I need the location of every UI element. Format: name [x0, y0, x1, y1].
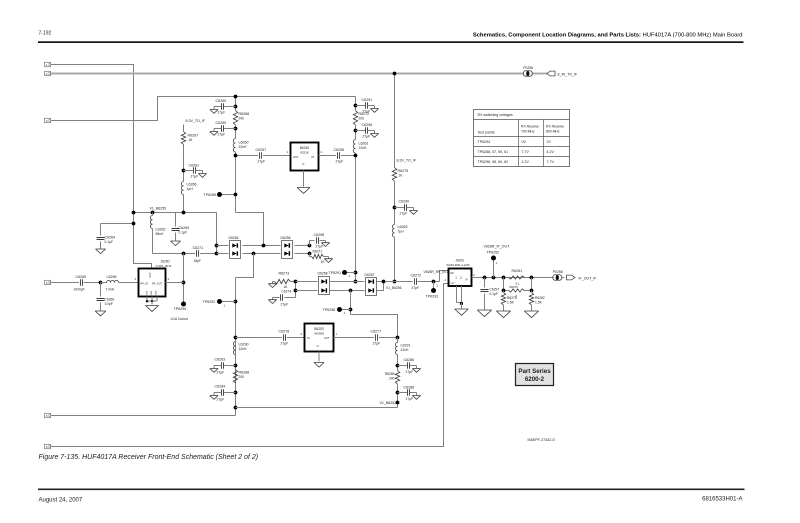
svg-text:GND: GND: [156, 290, 158, 295]
svg-text:RF_OUT: RF_OUT: [152, 282, 163, 286]
svg-text:C6290: C6290: [399, 200, 410, 204]
svg-text:27µF: 27µF: [218, 133, 226, 137]
svg-text:8.3V_TO_IF: 8.3V_TO_IF: [397, 159, 417, 163]
svg-text:C6272: C6272: [411, 274, 422, 278]
svg-text:TP6292: TP6292: [203, 300, 216, 304]
svg-text:P0256: P0256: [523, 66, 533, 70]
svg-text:C6266: C6266: [105, 298, 115, 302]
svg-text:L6262: L6262: [156, 228, 166, 232]
svg-text:27µF: 27µF: [336, 160, 344, 164]
svg-text:D6256: D6256: [281, 236, 291, 240]
svg-text:V1_B6255: V1_B6255: [150, 207, 167, 211]
svg-text:D6258: D6258: [318, 272, 328, 276]
svg-text:C6277: C6277: [371, 330, 382, 334]
svg-text:U1A Cutout: U1A Cutout: [171, 317, 188, 321]
svg-text:200: 200: [389, 377, 395, 381]
svg-text:V1_B6256: V1_B6256: [386, 286, 402, 290]
svg-text:R6267: R6267: [188, 134, 199, 138]
svg-text:C6257: C6257: [256, 148, 267, 152]
svg-text:C6265: C6265: [76, 275, 87, 279]
svg-text:200: 200: [239, 375, 245, 379]
svg-text:27µF: 27µF: [191, 175, 199, 179]
svg-text:Q: Q: [302, 163, 305, 165]
svg-text:1000pF: 1000pF: [74, 288, 85, 292]
svg-text:C6286: C6286: [404, 358, 415, 362]
svg-text:18pF: 18pF: [194, 259, 202, 263]
svg-text:TP6293: TP6293: [426, 295, 439, 299]
svg-text:L6291: L6291: [401, 344, 411, 348]
svg-text:C6283: C6283: [215, 358, 226, 362]
svg-text:L6290: L6290: [239, 343, 249, 347]
svg-text:C6278: C6278: [279, 330, 290, 334]
svg-text:22nH: 22nH: [239, 347, 248, 351]
svg-text:C6274: C6274: [282, 290, 292, 294]
svg-text:GND: GND: [151, 290, 153, 295]
svg-text:R6278: R6278: [507, 296, 517, 300]
svg-text:D6254: D6254: [229, 236, 239, 240]
svg-text:7.0nH: 7.0nH: [106, 288, 115, 292]
svg-text:27µF: 27µF: [406, 397, 414, 401]
svg-text:22nH: 22nH: [239, 145, 248, 149]
svg-text:7µH: 7µH: [398, 230, 405, 234]
svg-text:R6282: R6282: [535, 296, 545, 300]
svg-text:Schematics, Component Location: Schematics, Component Location Diagrams,…: [473, 33, 743, 39]
svg-text:6816533H01-A: 6816533H01-A: [702, 497, 742, 503]
svg-text:27µF: 27µF: [217, 371, 225, 375]
svg-text:IN: IN: [312, 155, 315, 159]
svg-text:V626R_IF_OUT: V626R_IF_OUT: [484, 245, 511, 249]
svg-text:MAEPF-27342-O: MAEPF-27342-O: [528, 438, 556, 442]
svg-text:27µF: 27µF: [406, 370, 414, 374]
svg-text:Test points: Test points: [478, 131, 495, 135]
svg-text:22nH: 22nH: [401, 348, 410, 352]
svg-text:August 24, 2007: August 24, 2007: [39, 498, 83, 504]
svg-text:47pF: 47pF: [412, 286, 420, 290]
svg-text:J6250: J6250: [161, 260, 170, 264]
svg-text:C6260: C6260: [216, 99, 227, 103]
svg-text:200: 200: [239, 117, 245, 121]
svg-text:W6368: W6368: [314, 332, 324, 336]
svg-text:0.1µF: 0.1µF: [490, 292, 499, 296]
svg-text:7.7V: 7.7V: [547, 160, 555, 164]
svg-text:OUT: OUT: [293, 155, 299, 159]
svg-text:J6291: J6291: [456, 259, 465, 263]
svg-text:8.3V_TO_IF: 8.3V_TO_IF: [186, 119, 206, 123]
svg-text:L6261: L6261: [359, 142, 369, 146]
svg-text:16: 16: [189, 138, 193, 142]
svg-text:27µF: 27µF: [400, 212, 408, 216]
svg-text:7-192: 7-192: [39, 31, 52, 37]
svg-text:27µF: 27µF: [281, 303, 289, 307]
svg-text:68nH: 68nH: [156, 232, 165, 236]
svg-text:4.2V: 4.2V: [547, 150, 555, 154]
svg-text:27µF: 27µF: [217, 398, 225, 402]
svg-text:27µF: 27µF: [281, 342, 289, 346]
svg-text:TP6252: TP6252: [487, 251, 500, 255]
svg-text:Figure 7-135. HUF4017A Receive: Figure 7-135. HUF4017A Receiver Front-En…: [39, 454, 259, 461]
svg-text:WH4S-9001-4-1225: WH4S-9001-4-1225: [447, 263, 471, 267]
svg-text:22nH: 22nH: [359, 146, 368, 150]
svg-text:V626R_RF_IN 1: V626R_RF_IN 1: [424, 270, 449, 274]
svg-text:L6260: L6260: [239, 141, 249, 145]
svg-text:A-WS_0011: A-WS_0011: [156, 264, 172, 268]
svg-text:27µF: 27µF: [373, 342, 381, 346]
svg-text:200: 200: [359, 117, 365, 121]
svg-text:2V: 2V: [547, 140, 552, 144]
svg-text:27µF: 27µF: [258, 160, 266, 164]
svg-text:R6268: R6268: [239, 112, 250, 116]
svg-text:P0258: P0258: [553, 270, 563, 274]
svg-text:1.5K: 1.5K: [535, 301, 543, 305]
svg-text:27µF: 27µF: [316, 245, 324, 249]
svg-text:IN: IN: [307, 336, 310, 340]
svg-text:TP6291: TP6291: [329, 271, 342, 275]
svg-text:IF_OUT_IF: IF_OUT_IF: [579, 276, 598, 280]
svg-text:3.0pF: 3.0pF: [105, 302, 113, 306]
svg-text:R6289: R6289: [385, 372, 395, 376]
svg-text:R6271: R6271: [313, 250, 323, 254]
svg-text:C6291: C6291: [362, 98, 373, 102]
svg-text:Part Series: Part Series: [518, 368, 551, 375]
svg-text:C6264: C6264: [105, 236, 116, 240]
svg-text:RF_IN: RF_IN: [141, 282, 149, 286]
svg-text:C6288: C6288: [404, 386, 415, 390]
svg-text:700 MHz: 700 MHz: [521, 129, 535, 133]
svg-text:0.1µF: 0.1µF: [179, 231, 188, 235]
svg-text:R6281: R6281: [512, 269, 523, 273]
svg-text:C6284: C6284: [215, 385, 226, 389]
svg-text:800 MHz: 800 MHz: [546, 129, 560, 133]
svg-text:R6279: R6279: [510, 285, 519, 289]
svg-text:R6273: R6273: [279, 272, 290, 276]
svg-text:B6262: B6262: [300, 146, 310, 150]
svg-text:Q: Q: [317, 345, 320, 347]
svg-text:GND: GND: [147, 290, 149, 295]
svg-text:RX Receive: RX Receive: [521, 125, 539, 129]
svg-text:C6271: C6271: [193, 246, 204, 250]
svg-text:1.5K: 1.5K: [507, 301, 515, 305]
svg-text:VCC: VCC: [149, 272, 152, 277]
svg-text:TP6294: TP6294: [478, 140, 491, 144]
svg-text:R6275: R6275: [398, 169, 409, 173]
svg-text:D6257: D6257: [365, 273, 375, 277]
svg-text:TP6298: TP6298: [323, 308, 336, 312]
svg-text:C6297: C6297: [490, 288, 500, 292]
svg-text:R6272: R6272: [359, 112, 370, 116]
svg-text:C6259: C6259: [216, 121, 227, 125]
svg-text:L6266: L6266: [187, 183, 197, 187]
svg-text:R6288: R6288: [239, 371, 250, 375]
svg-text:1µH: 1µH: [187, 187, 194, 191]
svg-text:0.1µF: 0.1µF: [105, 240, 114, 244]
svg-text:C6256: C6256: [334, 148, 345, 152]
svg-text:RX Receive: RX Receive: [546, 125, 564, 129]
svg-text:RX switching voltages: RX switching voltages: [478, 113, 513, 117]
svg-text:OUT: OUT: [324, 336, 330, 340]
svg-text:C6269: C6269: [179, 226, 190, 230]
svg-text:TP6298, 58, 60, 62: TP6298, 58, 60, 62: [478, 160, 509, 164]
svg-text:C6298: C6298: [314, 233, 325, 237]
svg-text:C6296: C6296: [362, 123, 373, 127]
svg-text:62516: 62516: [300, 151, 309, 155]
svg-text:8_IN_TO_IF: 8_IN_TO_IF: [558, 72, 579, 76]
svg-text:C6281: C6281: [189, 164, 200, 168]
svg-text:27µF: 27µF: [218, 111, 226, 115]
svg-text:RF: RF: [451, 271, 455, 275]
svg-text:LO: LO: [451, 281, 454, 285]
svg-text:16: 16: [284, 285, 288, 289]
svg-text:27µF: 27µF: [363, 135, 371, 139]
svg-text:B6253: B6253: [314, 327, 324, 331]
svg-text:L6263: L6263: [398, 225, 408, 229]
svg-text:V1_B6252: V1_B6252: [380, 401, 397, 405]
svg-text:TP6288, 57, 59, 61: TP6288, 57, 59, 61: [478, 150, 509, 154]
svg-text:TP6289: TP6289: [204, 193, 217, 197]
svg-text:TP6290: TP6290: [174, 307, 187, 311]
svg-text:6200-2: 6200-2: [525, 376, 545, 383]
svg-text:0V: 0V: [522, 140, 527, 144]
svg-text:2.2V: 2.2V: [522, 160, 530, 164]
svg-text:7.7V: 7.7V: [522, 150, 530, 154]
svg-text:L6296: L6296: [107, 275, 117, 279]
